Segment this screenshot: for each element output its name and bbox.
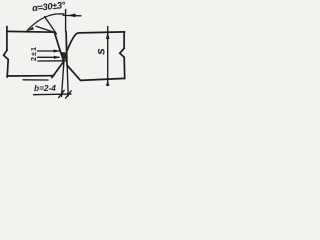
left plate bottom bevel (52, 61, 64, 77)
stray scan line under left plate (23, 79, 48, 81)
svg-text:s: s (94, 48, 108, 55)
left plate left edge lower (7, 59, 8, 77)
left plate top bevel (54, 32, 60, 50)
root gap ink blob (61, 52, 67, 60)
left plate root face (60, 50, 64, 61)
right plate bottom edge (81, 78, 125, 80)
arrowhead of root leader 2 (54, 56, 60, 59)
left plate break zigzag (4, 50, 9, 60)
right plate right edge lower (123, 57, 126, 78)
right plate root face (65, 32, 68, 66)
svg-text:2±1: 2±1 (29, 46, 38, 61)
angle oblique stroke at corner (36, 17, 57, 35)
b dimension line (34, 93, 72, 96)
wire: b extension line left (62, 62, 64, 97)
s dimension line (107, 27, 109, 86)
svg-text:b=2-4: b=2-4 (34, 83, 56, 93)
b oblique tick left (59, 90, 65, 97)
root leader line 2 (38, 56, 60, 58)
right plate top bevel (67, 33, 80, 51)
angle arc tail (63, 14, 81, 16)
left plate bottom edge (7, 75, 54, 77)
angle extension vertical (65, 10, 67, 32)
angle arc (27, 14, 64, 31)
b oblique tick right (66, 91, 72, 98)
s dimension bottom arrowhead (106, 80, 110, 85)
root leader line 1 (38, 50, 59, 52)
arrowhead of root leader 1 (54, 49, 60, 52)
left plate top edge (7, 30, 54, 33)
left plate left edge upper (6, 27, 8, 50)
right plate top edge (80, 32, 125, 33)
right plate right edge upper (123, 32, 125, 49)
root leader line 3 (38, 60, 66, 62)
right plate bottom bevel (67, 66, 80, 81)
wire: b extension line right (67, 66, 68, 96)
right plate break zigzag (120, 49, 124, 58)
arrowhead of arc start (27, 27, 34, 31)
arrowhead of angle arc tail (68, 14, 76, 18)
s dimension top arrowhead (106, 32, 110, 39)
